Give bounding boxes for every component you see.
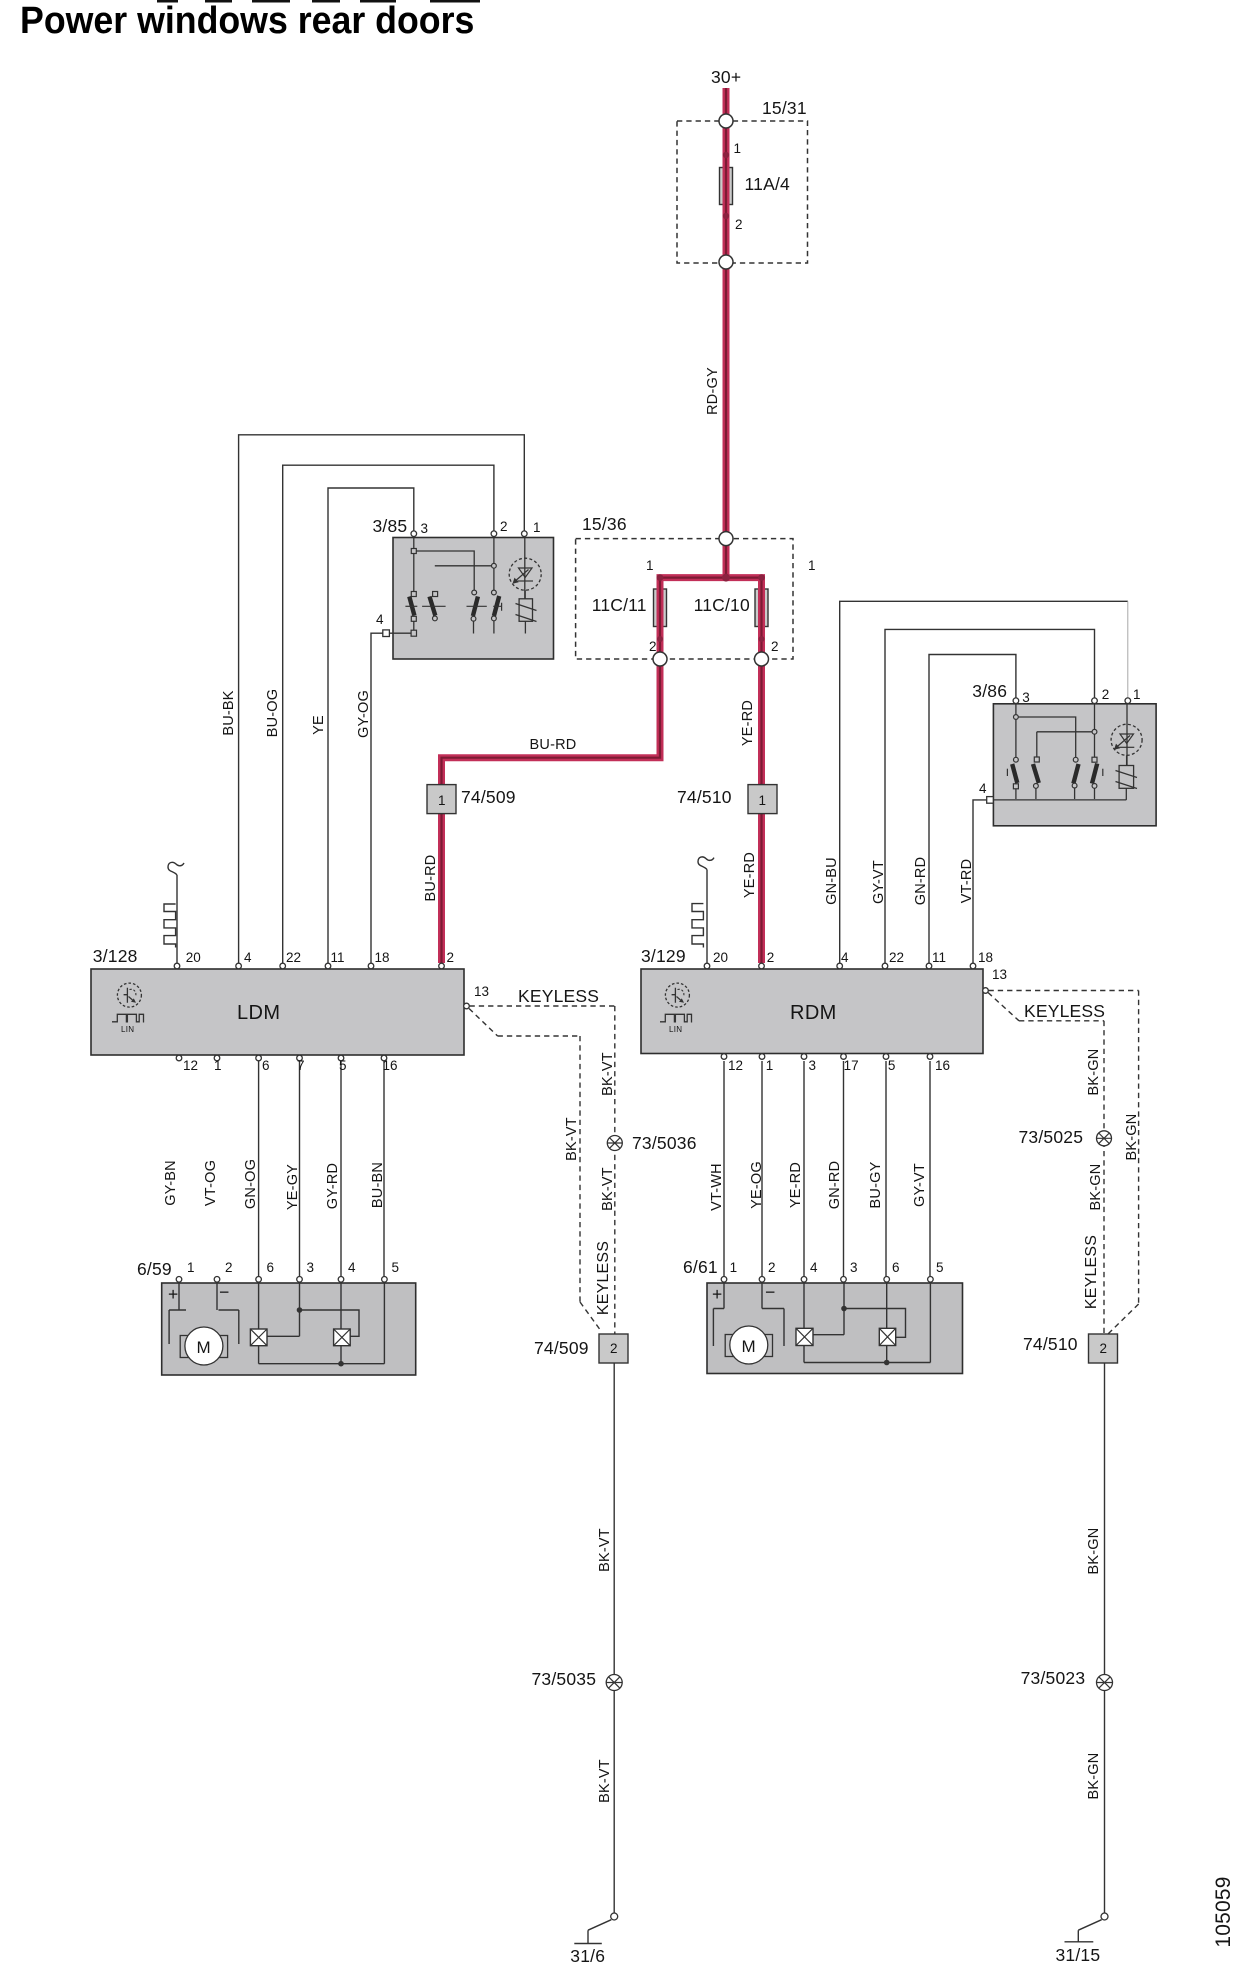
wire GN-RD : RDM pin 11 to 3/86 pin 3 bbox=[929, 655, 1016, 964]
KEYLESS rotated left bbox=[595, 1241, 613, 1315]
connector 74/509 pin 2 text bbox=[610, 1341, 618, 1356]
window motor 6/61 body bbox=[707, 1283, 963, 1374]
fuse 11C/11 body bbox=[654, 589, 667, 627]
wire label GN-OG bbox=[243, 1159, 259, 1209]
wire label BU-RD horizontal bbox=[530, 737, 577, 753]
fuse box 15/31 dashed outline bbox=[677, 121, 808, 263]
RDM pin 12 label bbox=[728, 1058, 743, 1073]
6/59 motor bracket left (pin 1) bbox=[169, 1283, 186, 1344]
6/61 window lift X symbol 2 bbox=[879, 1283, 895, 1363]
fuse 11C/10 pin 2 dot bbox=[759, 636, 765, 642]
LDM pin 18 label bbox=[375, 950, 390, 965]
ground label 31/15 bbox=[1056, 1945, 1101, 1966]
node 30+ label bbox=[711, 67, 741, 88]
RDM pin 16 label bbox=[935, 1058, 950, 1073]
label 15/31 bbox=[762, 98, 807, 119]
wire label GY-VT bottom bbox=[912, 1163, 928, 1207]
wire YE-OG : RDM pin 1 to 6/61 pin 2 bbox=[761, 1061, 763, 1277]
wire label GY-OG bbox=[356, 689, 372, 737]
wire label YE-RD upper bbox=[740, 699, 756, 745]
3/86 pin 3 circle bbox=[1013, 698, 1019, 704]
wire label YE-OG bbox=[749, 1162, 765, 1210]
6/61 minus sign bbox=[765, 1282, 775, 1303]
6/59 pin 1 label bbox=[187, 1260, 195, 1275]
LDM pin 12 label bbox=[183, 1058, 198, 1073]
6/61 motor bracket left (pin 1) bbox=[713, 1283, 724, 1346]
wire YE-GY : LDM pin 7 to 6/59 pin 3 bbox=[299, 1061, 301, 1277]
connector 74/510 pin 1 text bbox=[759, 793, 767, 808]
wire label BK-GN right branch bbox=[1124, 1113, 1140, 1160]
6/59 pin 5 label bbox=[392, 1260, 400, 1275]
6/61 pin 2 label bbox=[768, 1260, 776, 1275]
label 6/61 bbox=[683, 1257, 718, 1278]
6/59 internal wiring pin 3 branch bbox=[267, 1283, 359, 1336]
wire label BK-GN upper bbox=[1086, 1049, 1102, 1096]
label 3/85 bbox=[373, 516, 408, 537]
label 3/129 bbox=[641, 946, 686, 967]
3/86 heater resistor bbox=[1116, 766, 1138, 800]
6/59 pin 3 label bbox=[307, 1260, 315, 1275]
connector 74/510 pin 2 text bbox=[1100, 1341, 1108, 1356]
fuse 11C/11 pin 2 label bbox=[649, 639, 657, 654]
title bbox=[20, 0, 474, 43]
wire BU-BN : LDM pin 16 to 6/59 pin 5 bbox=[383, 1061, 385, 1277]
connector circle 15/31 top bbox=[719, 114, 733, 128]
connector circle 15/36 bottom right bbox=[755, 652, 769, 666]
3/86 switch lever D bbox=[1092, 757, 1103, 799]
cropped text remnants at very top bbox=[157, 0, 480, 3]
wire YE : 3/85 pin 3 to LDM pin 11 bbox=[328, 488, 414, 963]
wire label BK-GN lower bbox=[1086, 1753, 1102, 1800]
KEYLESS rotated right bbox=[1083, 1235, 1101, 1309]
wire label BK-VT lower bbox=[597, 1759, 613, 1803]
wire label GY-RD bbox=[325, 1162, 341, 1208]
ground label 31/6 bbox=[570, 1946, 605, 1967]
splice label 73/5035 bbox=[532, 1669, 597, 1690]
wire GY-RD : LDM pin 5 to 6/59 pin 4 bbox=[340, 1061, 342, 1277]
fuse 11C/11 pin 1 label bbox=[646, 558, 654, 573]
3/86 pin 2 circle bbox=[1092, 698, 1098, 704]
RDM antenna wire on pin 20 bbox=[692, 857, 714, 963]
LDM top pin circles bbox=[174, 963, 444, 969]
3/85 switch lever B bbox=[422, 592, 446, 621]
RDM LIN text bbox=[669, 1025, 682, 1034]
6/59 pin 4 label bbox=[348, 1260, 356, 1275]
3/86 pin 3 label bbox=[1022, 690, 1030, 705]
label 3/86 bbox=[972, 681, 1007, 702]
wire label VT-WH bbox=[709, 1163, 725, 1211]
wire label GN-BU bbox=[824, 857, 840, 905]
3/86 pin 1 circle bbox=[1125, 698, 1131, 704]
LDM pin 20 label bbox=[186, 950, 201, 965]
wire label BU-RD rotated bbox=[423, 854, 439, 901]
6/61 window lift X symbol 1 bbox=[796, 1283, 813, 1363]
3/85 heater resistor bbox=[516, 599, 537, 634]
RDM pin 13 label bbox=[992, 967, 1007, 982]
RDM pin 18 label bbox=[978, 950, 993, 965]
wire BU-GY : RDM pin 5 to 6/61 pin 6 bbox=[885, 1061, 887, 1277]
fuse 11A/4 pin 2 label bbox=[735, 217, 743, 232]
LDM name bbox=[237, 1002, 280, 1025]
RDM pin 5 label bbox=[888, 1058, 896, 1073]
connector label 74/510 lower bbox=[1023, 1334, 1078, 1355]
wire 30+ feed RD-GY (main red supply) bbox=[723, 88, 730, 578]
6/59 motor letter bbox=[197, 1338, 211, 1358]
LDM pin 13 label bbox=[474, 984, 489, 999]
3/86 pin 4 square bbox=[987, 797, 994, 804]
6/59 pin 6 label bbox=[267, 1260, 275, 1275]
fuse 11C/10 pin 1 label bbox=[808, 558, 816, 573]
fuse 11C/10 pin 2 label bbox=[771, 639, 779, 654]
LDM pin 1 label bbox=[214, 1058, 222, 1073]
6/59 internal bottom bus to pin 5 bbox=[259, 1283, 385, 1366]
wire label BU-BK bbox=[221, 690, 237, 735]
6/59 top pin circles bbox=[176, 1277, 387, 1283]
wire label BK-GN below splice bbox=[1088, 1163, 1104, 1210]
wire label BK-GN mid bbox=[1086, 1528, 1102, 1575]
fuse 11A/4 pin 2 dot bbox=[723, 213, 729, 219]
RDM pin 11 label bbox=[932, 950, 946, 965]
RDM pin 1 label bbox=[766, 1058, 774, 1073]
6/59 plus sign bbox=[168, 1284, 178, 1305]
3/86 internal bus pin 4 bbox=[994, 799, 1127, 801]
fuse 11C/11 pin 2 dot bbox=[657, 636, 663, 642]
wire GY-OG : 3/85 pin 4 to LDM pin 18 bbox=[371, 633, 383, 963]
6/59 motor M bbox=[180, 1327, 227, 1365]
RDM pin 13 circle bbox=[983, 988, 989, 994]
3/86 pin 4 label bbox=[979, 781, 987, 796]
3/85 pin 2 label bbox=[500, 519, 508, 534]
3/85 pin 4 label bbox=[376, 612, 384, 627]
connector label 74/510 upper bbox=[677, 787, 732, 808]
LDM pin 22 label bbox=[286, 950, 301, 965]
switch module 3/85 body bbox=[393, 538, 554, 660]
RDM pin 22 label bbox=[889, 950, 904, 965]
RDM name bbox=[790, 1002, 837, 1025]
3/85 pin 2 circle bbox=[491, 531, 497, 537]
wire label BU-GY bbox=[868, 1162, 884, 1209]
wire GN-RD : RDM pin 17 to 6/61 pin 3 bbox=[843, 1061, 845, 1277]
wire BK-GN : 74/510 to ground 31/15 bbox=[1104, 1363, 1106, 1913]
3/85 switch lever A bbox=[405, 592, 417, 637]
label 15/36 bbox=[582, 514, 627, 535]
3/85 switch lever D bbox=[492, 590, 502, 633]
wire label GN-RD bottom bbox=[827, 1161, 843, 1210]
fuse 11A/4 pin 1 label bbox=[734, 141, 742, 156]
LDM pin 16 label bbox=[383, 1058, 398, 1073]
splice label 73/5036 bbox=[632, 1133, 697, 1154]
splice 73/5036 bbox=[607, 1136, 622, 1151]
3/85 pin 4 square bbox=[383, 630, 390, 637]
LDM pin 11 label bbox=[331, 950, 345, 965]
drawing number 105059 bbox=[1212, 1876, 1236, 1947]
wire label YE-RD bottom bbox=[788, 1162, 804, 1208]
6/59 pin 2 label bbox=[225, 1260, 233, 1275]
wire GN-BU : RDM pin 4 to 3/86 pin 1 bbox=[840, 601, 1128, 963]
wire label YE-RD lower bbox=[742, 852, 758, 898]
ground 31/6 bbox=[574, 1913, 617, 1944]
control module LDM 3/128 body bbox=[91, 969, 464, 1055]
connector circle 15/36 bottom left bbox=[653, 652, 667, 666]
wire label BU-BN bbox=[370, 1162, 386, 1208]
wire label VT-RD bbox=[959, 859, 975, 904]
6/61 internal bottom bus to pin 5 bbox=[804, 1283, 930, 1365]
wire GY-VT : RDM pin 22 to 3/86 pin 2 bbox=[885, 629, 1095, 963]
6/61 pin 4 label bbox=[810, 1260, 818, 1275]
splice label 73/5023 bbox=[1021, 1668, 1086, 1689]
3/85 internal feed pin 2 to switches bbox=[435, 537, 497, 590]
3/85 indicator LED bbox=[509, 537, 541, 599]
wire BU-BK : 3/85 pin 1 to LDM pin 4 bbox=[239, 435, 525, 963]
3/85 pin 1 label bbox=[533, 520, 541, 535]
wire label YE-GY bbox=[285, 1163, 301, 1209]
fuse 11C/11 value label bbox=[592, 595, 647, 616]
RDM pin 2 label bbox=[767, 950, 775, 965]
connector 74/510 pin 2 bbox=[1089, 1334, 1118, 1363]
LDM internal LIN icon bbox=[112, 983, 144, 1022]
KEYLESS label left bbox=[518, 986, 599, 1007]
3/86 internal feed pin 3 to switches bbox=[1014, 704, 1076, 759]
wire label VT-OG bbox=[203, 1160, 219, 1206]
LDM pin 5 label bbox=[339, 1058, 347, 1073]
connector label 74/509 lower bbox=[534, 1338, 589, 1359]
control module RDM 3/129 body bbox=[641, 969, 983, 1054]
RDM pin 20 label bbox=[713, 950, 728, 965]
fuse 11A/4 pin 1 dot bbox=[723, 152, 729, 158]
connector circle 15/31 bottom bbox=[719, 255, 733, 269]
6/61 pin 1 label bbox=[730, 1260, 738, 1275]
6/61 plus sign bbox=[712, 1284, 722, 1305]
label 6/59 bbox=[137, 1259, 172, 1280]
6/61 motor M bbox=[725, 1326, 772, 1364]
wire VT-RD : RDM pin 18 to 3/86 pin 4 bbox=[973, 800, 987, 963]
wire YE-RD from fuse 11C/10 to RDM pin 2 bbox=[758, 666, 765, 963]
6/61 motor letter bbox=[742, 1337, 756, 1357]
LDM bottom pin circles bbox=[176, 1055, 387, 1061]
KEYLESS dashed net from LDM pin 13 bbox=[469, 1006, 615, 1334]
3/85 internal feed pin 3 to switches bbox=[411, 537, 474, 592]
splice 73/5035 bbox=[606, 1675, 622, 1691]
wire BU-OG : 3/85 pin 2 to LDM pin 22 bbox=[283, 465, 494, 963]
wire label YE bbox=[311, 716, 327, 736]
wire label BK-VT below splice bbox=[600, 1167, 616, 1211]
connector circle 15/36 top bbox=[719, 532, 733, 546]
label 3/128 bbox=[93, 946, 138, 967]
LDM pin 13 circle bbox=[464, 1003, 470, 1009]
wire label GN-RD bbox=[913, 857, 929, 906]
RDM bottom pin circles bbox=[721, 1054, 933, 1060]
6/61 pin 5 label bbox=[936, 1260, 944, 1275]
LDM pin 4 label bbox=[244, 950, 252, 965]
junction node in 15/36 bbox=[657, 574, 765, 582]
6/59 motor bracket right (pin 2) bbox=[217, 1283, 239, 1344]
6/61 motor bracket right (pin 2) bbox=[762, 1283, 784, 1346]
connector 74/509 pin 2 bbox=[599, 1334, 628, 1363]
wire VT-WH : RDM pin 12 to 6/61 pin 1 bbox=[723, 1061, 725, 1277]
LDM LIN text bbox=[121, 1025, 134, 1034]
KEYLESS dashed net from RDM pin 13 bbox=[988, 991, 1139, 1335]
RDM top pin circles bbox=[704, 963, 976, 969]
splice 73/5025 bbox=[1097, 1131, 1112, 1146]
6/61 top pin circles bbox=[721, 1277, 933, 1283]
3/86 switch lever A bbox=[1007, 757, 1018, 799]
3/85 pin 3 circle bbox=[411, 531, 417, 537]
RDM internal LIN icon bbox=[660, 983, 692, 1022]
connector label 74/509 upper bbox=[461, 787, 516, 808]
wire BK-VT : 74/509 to ground 31/6 bbox=[613, 1363, 615, 1913]
6/61 pin 3 label bbox=[850, 1260, 858, 1275]
KEYLESS label right bbox=[1024, 1001, 1105, 1022]
6/59 window lift X symbol 1 bbox=[250, 1283, 267, 1364]
RDM pin 4 label bbox=[841, 950, 849, 965]
fuse 11C/10 value label bbox=[694, 595, 750, 616]
6/61 pin 6 label bbox=[892, 1260, 900, 1275]
splice 73/5023 bbox=[1097, 1675, 1113, 1691]
wire label BK-VT branch bbox=[564, 1117, 580, 1161]
3/86 switch lever C bbox=[1072, 757, 1078, 799]
switch module 3/86 body bbox=[993, 704, 1156, 826]
6/59 minus sign bbox=[219, 1282, 229, 1303]
LDM pin 7 label bbox=[297, 1058, 305, 1073]
fuse box 15/36 dashed outline bbox=[576, 539, 793, 659]
wire label BU-OG bbox=[265, 688, 281, 737]
fuse 11A/4 body bbox=[720, 168, 733, 205]
6/59 window lift X symbol 2 bbox=[334, 1283, 351, 1364]
splice label 73/5025 bbox=[1019, 1127, 1084, 1148]
fuse 11C/10 body bbox=[755, 589, 768, 627]
3/86 pin 2 label bbox=[1102, 687, 1110, 702]
wire label GY-VT bbox=[871, 860, 887, 904]
wire BU-RD from fuse 11C/11 to LDM pin 2 bbox=[442, 666, 661, 963]
3/86 pin 1 label bbox=[1133, 687, 1141, 702]
3/86 indicator LED bbox=[1111, 704, 1142, 766]
3/85 pin 3 label bbox=[421, 521, 429, 536]
RDM pin 3 label bbox=[809, 1058, 817, 1073]
LDM antenna wire on pin 20 bbox=[164, 862, 184, 963]
3/86 switch lever B bbox=[1033, 757, 1039, 799]
connector 74/509 pin 1 bbox=[427, 785, 456, 814]
wire label GY-BN bbox=[163, 1160, 179, 1206]
ground 31/15 bbox=[1065, 1913, 1109, 1942]
wire label BK-VT mid bbox=[597, 1528, 613, 1572]
LDM pin 6 label bbox=[262, 1058, 270, 1073]
LDM pin 2 label bbox=[447, 950, 455, 965]
RDM pin 17 label bbox=[844, 1058, 859, 1073]
wire label BK-VT upper bbox=[600, 1052, 616, 1096]
3/85 switch lever C bbox=[467, 590, 487, 633]
3/85 pin 1 circle bbox=[522, 531, 528, 537]
wire red distribution to fuses 11C/11 and 11C/10 bbox=[660, 578, 762, 662]
fuse 11A/4 value label bbox=[745, 174, 790, 195]
connector 74/509 pin 1 text bbox=[438, 793, 446, 808]
wire GY-VT : RDM pin 16 to 6/61 pin 5 bbox=[929, 1061, 931, 1277]
3/85 internal bus to pin 4 bbox=[389, 632, 411, 634]
wire GN-OG : LDM pin 6 to 6/59 pin 6 bbox=[258, 1061, 260, 1277]
wire YE-RD : RDM pin 3 to 6/61 pin 4 bbox=[803, 1061, 805, 1277]
window motor 6/59 body bbox=[162, 1283, 416, 1375]
3/86 internal feed pin 2 to switches bbox=[1037, 704, 1097, 758]
6/61 internal wiring pin 3 branch bbox=[813, 1283, 906, 1337]
connector 74/510 pin 1 bbox=[748, 785, 777, 814]
wire label RD-GY bbox=[705, 367, 721, 415]
